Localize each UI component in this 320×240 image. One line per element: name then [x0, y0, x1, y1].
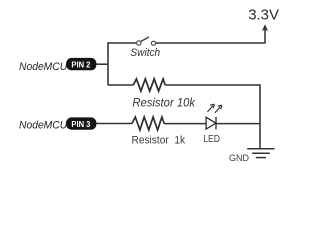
svg-text:PIN 3: PIN 3 [71, 119, 90, 129]
resistor R1 10k [133, 79, 165, 91]
svg-text:PIN 2: PIN 2 [71, 60, 90, 70]
wire: PIN 3 to resistor R2 [96, 123, 132, 125]
wire: resistor R2 to LED anode [164, 123, 206, 125]
LED D1 [206, 104, 222, 129]
wire: resistor R1 to right rail [165, 84, 260, 86]
switch S1 [137, 37, 156, 45]
svg-text:LED: LED [203, 134, 220, 145]
svg-text:NodeMCU: NodeMCU [19, 119, 67, 131]
svg-text:Switch: Switch [130, 47, 160, 59]
pin PIN 3 [66, 117, 96, 129]
wire: LED cathode to right rail [216, 123, 260, 125]
svg-text:GND: GND [229, 153, 249, 164]
wire: left junction to switch left terminal [108, 42, 137, 44]
wire: junction vertical (PIN2 net) [107, 42, 109, 85]
wire: right rail vertical [259, 84, 261, 148]
power arrow 3.3V [262, 24, 268, 43]
wire: junction to resistor R1 [108, 84, 133, 86]
svg-text:Resistor 10k: Resistor 10k [132, 96, 196, 110]
wire: switch right terminal to 3.3V corner [156, 42, 265, 44]
svg-text:3.3V: 3.3V [248, 7, 279, 24]
pin PIN 2 [66, 58, 96, 70]
svg-text:Resistor 1k: Resistor 1k [132, 135, 186, 147]
resistor R2 1k [132, 117, 164, 130]
wire: PIN 2 to junction [96, 63, 108, 65]
ground [247, 149, 274, 158]
svg-text:NodeMCU: NodeMCU [19, 61, 67, 73]
